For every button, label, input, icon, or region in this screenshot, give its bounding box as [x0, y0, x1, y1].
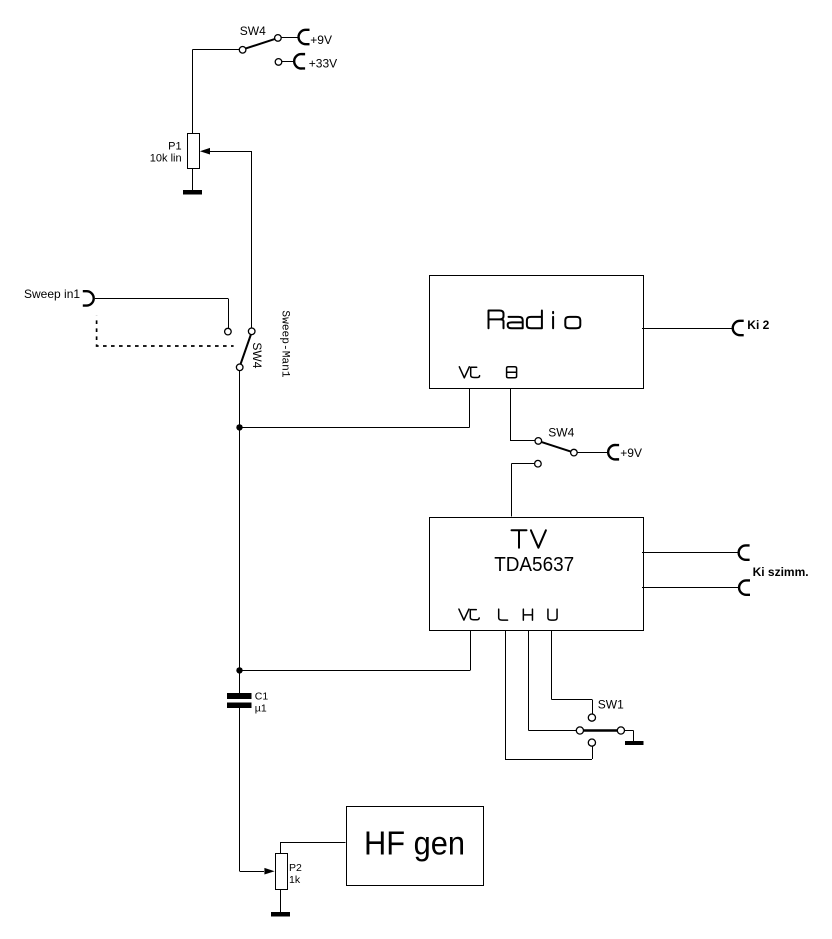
connector Ki szimm 1 — [739, 545, 750, 559]
ground (SW1) — [625, 741, 644, 745]
svg-text:Ki 2: Ki 2 — [747, 318, 769, 332]
wire Radio B pin to SW4 — [510, 388, 512, 441]
block HF gen box — [347, 807, 484, 886]
svg-text:SW4: SW4 — [240, 24, 266, 38]
block Radio box — [430, 276, 644, 389]
svg-text:Sweep-Man1: Sweep-Man1 — [279, 310, 291, 377]
svg-text:SW4: SW4 — [548, 426, 574, 440]
capacitor C1 plate 2 — [227, 702, 251, 708]
svg-text:P2: P2 — [289, 862, 302, 874]
svg-text:HF gen: HF gen — [364, 826, 465, 863]
potentiometer P2 body — [276, 854, 288, 890]
switch SW4 sweep lever — [241, 335, 251, 365]
svg-text:+33V: +33V — [309, 56, 337, 70]
wire TV H pin to SW1 — [528, 630, 530, 731]
switch SW1 contact U — [588, 714, 595, 721]
connector +9V (top) — [299, 30, 310, 44]
wire node A down to node B — [239, 427, 241, 670]
svg-text:C1: C1 — [255, 691, 269, 703]
svg-text:P1: P1 — [168, 140, 181, 152]
switch SW4 (B) lower contact — [535, 460, 542, 467]
switch SW4 (B) left contact — [535, 438, 542, 445]
wire TV output 2 to Ki szimm — [642, 587, 738, 589]
wire TV output 1 to Ki szimm — [642, 552, 738, 554]
switch SW1 lever — [584, 729, 617, 732]
wire Radio output to Ki 2 — [642, 328, 732, 330]
TV pin label L — [499, 609, 508, 620]
svg-text:+9V: +9V — [620, 446, 642, 460]
TV pin label Vt — [459, 609, 469, 620]
switch SW4 (B) right contact — [571, 449, 578, 456]
switch SW1 common — [617, 727, 624, 734]
switch SW4 (supply select) common contact — [239, 47, 246, 54]
potentiometer P1 wiper arrow — [200, 148, 210, 155]
wire node A to Radio Vt pin — [240, 427, 470, 429]
switch SW4 sweep contact (P1) — [248, 328, 255, 335]
svg-text:+9V: +9V — [310, 33, 332, 47]
wire P2 bottom to ground — [280, 889, 282, 912]
wire TV L pin to SW1 — [505, 630, 507, 759]
wire TV U pin to SW1 — [551, 630, 553, 700]
connector Ki szimm 2 — [739, 580, 750, 594]
svg-text:TDA5637: TDA5637 — [494, 554, 574, 576]
capacitor C1 plate 1 — [227, 693, 251, 699]
TV pin label H — [523, 609, 532, 620]
Radio pin label Vt — [459, 367, 469, 378]
block Radio title — [489, 311, 581, 329]
wire SW1 common to ground — [625, 730, 634, 732]
wire P1 top to switch SW4 common — [193, 49, 240, 51]
svg-text:µ1: µ1 — [255, 703, 267, 715]
wire TV Vt pin to node B — [470, 630, 472, 671]
switch SW4 (B) lever — [541, 442, 571, 452]
wire node B to C1 — [239, 670, 241, 693]
ground (P2) — [271, 912, 290, 916]
dashed alternate path — [97, 316, 234, 346]
potentiometer P2 wiper arrow — [264, 868, 274, 875]
node A junction — [236, 424, 242, 430]
wire SW4 lower contact to TV box — [512, 463, 535, 465]
potentiometer P1 body — [188, 134, 200, 169]
ground (P1) — [183, 190, 202, 194]
svg-text:SW4: SW4 — [250, 342, 264, 368]
switch SW4 +9V contact — [275, 35, 282, 42]
Radio pin label B — [507, 367, 517, 378]
svg-text:Ki szimm.: Ki szimm. — [753, 565, 809, 579]
block TV title — [512, 530, 546, 547]
wire SW4 to +9V connector — [281, 37, 297, 39]
svg-text:1k: 1k — [289, 874, 301, 886]
connector Ki 2 — [733, 321, 744, 335]
wire P1 wiper down to SW4 — [251, 151, 253, 328]
TV pin label U — [548, 609, 557, 620]
wire C1 to P2 wiper — [239, 708, 241, 871]
node B junction — [236, 667, 242, 673]
wire SW4 common down to node A — [239, 371, 241, 428]
switch SW1 contact L — [588, 739, 595, 746]
switch SW4 lever — [245, 39, 275, 49]
switch SW4 sweep contact (Sweep in1) — [225, 328, 232, 335]
switch SW4 sweep common — [236, 364, 243, 371]
svg-text:10k lin: 10k lin — [150, 153, 182, 165]
switch SW1 contact H — [576, 727, 583, 734]
wire P2 top to HF gen — [280, 842, 282, 853]
wire Sweep in1 to switch — [95, 298, 228, 300]
terminal +33V contact — [275, 59, 282, 66]
wire +33V terminal to connector — [282, 61, 293, 63]
connector +33V — [294, 54, 305, 68]
svg-text:SW1: SW1 — [598, 698, 624, 712]
connector +9V (B) — [608, 445, 619, 459]
svg-text:Sweep in1: Sweep in1 — [24, 287, 80, 301]
wire SW4 to +9V connector (B) — [577, 452, 607, 454]
wire P1 bottom to ground — [192, 168, 194, 190]
block TV box — [430, 518, 644, 631]
connector Sweep in1 — [83, 291, 94, 305]
